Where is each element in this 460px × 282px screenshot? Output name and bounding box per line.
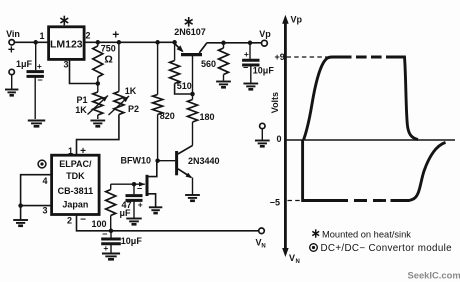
svg-text:Ω: Ω [104, 54, 112, 66]
watermark SeekIC.com [408, 269, 460, 280]
svg-text:+: + [244, 49, 249, 59]
resistor 750 &#937; [93, 42, 116, 83]
graph tick label 0 [276, 134, 281, 144]
junction dot BFW10 drain / Q2 base [155, 158, 160, 163]
wire converter pin4 [21, 175, 52, 220]
svg-text:−: − [80, 215, 86, 226]
svg-text:3: 3 [63, 60, 68, 70]
wire Q1 collector rail to Vp [206, 42, 261, 44]
svg-text:560: 560 [201, 59, 216, 69]
node Vp output terminal [259, 29, 271, 46]
svg-text:N: N [296, 259, 300, 265]
wire P2 bottom to ELPAC pin1 [77, 115, 119, 156]
junction dot output cap [248, 41, 253, 46]
junction dot at 1uF tap [33, 40, 38, 45]
svg-text:V: V [289, 253, 295, 263]
ground under 1uF [28, 121, 45, 127]
pin 1 label converter [68, 146, 73, 156]
svg-text:180: 180 [200, 112, 215, 122]
svg-text:LM123: LM123 [50, 39, 83, 51]
resistor 560 [201, 43, 229, 81]
svg-text:+: + [138, 200, 143, 210]
graph label Volts [270, 92, 280, 113]
pin 4 label converter [42, 176, 47, 186]
pin 1 label LM123 [39, 31, 44, 41]
plus label on top rail [112, 28, 119, 42]
ground under 47uF [126, 219, 141, 225]
svg-text:Volts: Volts [270, 92, 280, 113]
bullseye marker at converter [38, 160, 46, 168]
svg-text:SeekIC.com: SeekIC.com [408, 269, 460, 280]
graph label +9 [275, 52, 285, 62]
plus label converter pin1 [80, 146, 86, 157]
junction dot 47uF tap on gate wire [132, 182, 137, 187]
wire converter pin2 to VN rail [77, 215, 259, 231]
junction dot 560 top [221, 41, 226, 46]
footnote heatsink asterisk [312, 229, 319, 237]
junction dot bottom cap [109, 229, 114, 234]
svg-text:+: + [112, 28, 119, 42]
heatsink asterisk on Q1 [185, 17, 193, 27]
svg-text:−: − [137, 184, 142, 194]
transistor BFW10 JFET [111, 156, 157, 207]
svg-text:+: + [37, 61, 42, 71]
resistor 820 [153, 42, 175, 160]
svg-text:1K: 1K [125, 86, 137, 96]
ground under Q2 emitter [185, 195, 200, 201]
junction dot pin3 ground bus [18, 203, 23, 208]
capacitor 10&#181;F negative rail [101, 229, 142, 253]
junction dot node A [96, 81, 101, 86]
wire converter pin3 [21, 205, 52, 207]
potentiometer P2 1K [109, 42, 140, 115]
svg-text:1: 1 [39, 31, 44, 41]
svg-text:DC+/DC− Convertor module: DC+/DC− Convertor module [321, 243, 453, 254]
ground at converter pins [13, 220, 28, 226]
svg-text:10μF: 10μF [253, 66, 275, 76]
svg-text:2: 2 [67, 216, 72, 226]
capacitor 1&#181;F input [16, 42, 44, 119]
graph label -5 [270, 197, 280, 207]
ground under bottom cap [102, 254, 120, 260]
waveform positive fall [396, 57, 419, 140]
junction dot 750 top [96, 40, 101, 45]
graph axis Vp/VN vertical [282, 15, 289, 257]
wire terminal to ground [11, 75, 13, 89]
svg-text:Japan: Japan [62, 200, 88, 210]
resistor 510 [170, 42, 192, 94]
svg-text:1: 1 [68, 146, 73, 156]
graph label Vp [291, 15, 303, 25]
svg-text:Vin: Vin [6, 29, 20, 39]
svg-text:TDK: TDK [66, 171, 85, 181]
ground at output common [255, 141, 270, 147]
converter module ELPAC/TDK CB-3811 [52, 155, 100, 214]
wire Vin to LM123 pin1 [14, 41, 48, 43]
svg-text:N: N [261, 244, 265, 250]
svg-text:2N3440: 2N3440 [188, 156, 220, 166]
svg-text:3: 3 [42, 206, 47, 216]
wire common terminal to ground [261, 129, 263, 141]
waveform positive dashed top [356, 56, 397, 59]
waveform negative flat [301, 199, 348, 202]
graph dashed level -5 [288, 200, 301, 202]
heatsink asterisk on LM123 [60, 16, 68, 26]
svg-text:−5: −5 [270, 197, 280, 207]
svg-text:ELPAC/: ELPAC/ [59, 159, 92, 169]
footnote mounted on heatsink [322, 229, 411, 239]
pin 2 label LM123 [85, 30, 90, 40]
capacitor 47&#181;F [119, 184, 142, 219]
svg-text:510: 510 [177, 81, 192, 91]
resistor 180 [188, 94, 215, 145]
junction dot Q1 emitter [172, 40, 177, 45]
ground under 560 [216, 82, 231, 88]
svg-text:Vp: Vp [259, 29, 271, 39]
svg-text:BFW10: BFW10 [121, 156, 152, 166]
waveform negative dashed bottom [354, 199, 386, 202]
polarity + label at Vin [8, 43, 15, 57]
svg-text:750: 750 [101, 44, 116, 54]
pin 3 label converter [42, 206, 47, 216]
svg-text:+: + [103, 243, 108, 253]
footnote converter module [321, 243, 453, 254]
waveform positive rise [304, 57, 352, 140]
svg-text:+9: +9 [275, 52, 285, 62]
node Vin input terminal [6, 29, 20, 45]
wire LM123 pin3 to node A [70, 60, 97, 84]
graph label VN [289, 253, 300, 265]
svg-text:2N6107: 2N6107 [174, 27, 206, 37]
junction dot P2 top [117, 40, 122, 45]
graph dashed level +9 [287, 56, 332, 58]
svg-text:P1: P1 [76, 95, 87, 105]
svg-text:−: − [243, 63, 248, 73]
ground under output cap [243, 84, 258, 90]
ground under P1 [90, 121, 105, 127]
wire top rail LM123 pin2 to Q1 emitter [84, 41, 175, 43]
svg-text:100: 100 [91, 219, 106, 229]
svg-text:10μF: 10μF [121, 236, 143, 246]
ground under BFW10 source [149, 207, 162, 213]
svg-text:Mounted on heat/sink: Mounted on heat/sink [322, 229, 411, 239]
ground at input return [5, 90, 18, 96]
graph baseline 0 [286, 139, 455, 141]
svg-text:−: − [37, 75, 42, 85]
svg-text:+: + [8, 43, 15, 57]
svg-text:2: 2 [85, 30, 90, 40]
capacitor 10&#181;F output [242, 43, 274, 83]
svg-text:0: 0 [276, 134, 281, 144]
minus label converter pin2 [80, 215, 86, 226]
pin 3 label LM123 [63, 60, 68, 70]
pin 2 label converter [67, 216, 72, 226]
svg-text:+: + [80, 146, 86, 157]
svg-text:P2: P2 [128, 104, 139, 114]
waveform negative rise [391, 142, 446, 200]
footnote bullseye symbol [310, 244, 318, 252]
junction dot Q1 base node [190, 92, 195, 97]
svg-text:1K: 1K [75, 105, 87, 115]
op-amp U1 LM123 regulator box [49, 27, 85, 60]
svg-text:1μF: 1μF [16, 59, 33, 69]
svg-text:820: 820 [160, 111, 175, 121]
waveform negative fall [301, 140, 304, 199]
transistor Q1 2N6107 [174, 27, 206, 94]
input return terminal [9, 69, 14, 74]
svg-text:μF: μF [119, 208, 131, 218]
svg-text:Vp: Vp [291, 15, 303, 25]
node output common terminal [260, 123, 265, 128]
svg-text:−: − [102, 229, 107, 239]
node VN terminal [255, 228, 265, 250]
potentiometer P1 1K [75, 84, 108, 120]
junction dot 820 top [155, 40, 160, 45]
transistor Q2 2N3440 [159, 145, 220, 194]
svg-text:CB-3811: CB-3811 [58, 186, 94, 196]
svg-text:4: 4 [42, 176, 47, 186]
resistor 100 [91, 184, 115, 231]
